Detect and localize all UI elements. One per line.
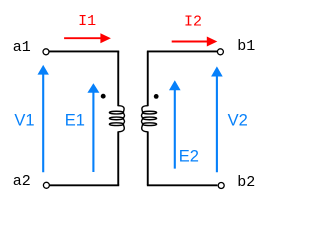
polarity dot primary <box>101 94 106 99</box>
svg-text:a1: a1 <box>13 39 31 56</box>
emf arrow E2 <box>169 80 181 168</box>
svg-text:b1: b1 <box>237 38 255 55</box>
voltage arrow V2 <box>211 66 223 172</box>
wire bottom-right horizontal node to b2 <box>147 184 218 186</box>
wire right vertical lower <box>147 131 149 185</box>
svg-text:a2: a2 <box>13 173 31 190</box>
svg-text:E1: E1 <box>65 111 85 129</box>
terminal b2 <box>218 183 224 189</box>
svg-text:I2: I2 <box>184 13 202 30</box>
wire right vertical upper <box>147 51 149 106</box>
terminal a1 <box>43 49 49 55</box>
emf arrow E1 <box>87 83 99 172</box>
inductor L1 primary winding <box>109 106 124 132</box>
polarity dot secondary <box>154 94 159 99</box>
wire bottom-left horizontal a2 to node <box>50 184 120 186</box>
terminal b1 <box>217 49 223 55</box>
svg-text:b2: b2 <box>237 174 255 191</box>
inductor L2 secondary winding <box>142 106 157 132</box>
svg-text:I1: I1 <box>78 13 96 30</box>
svg-text:V1: V1 <box>14 111 34 129</box>
current arrow I2 <box>172 37 218 47</box>
current arrow I1 <box>64 33 111 43</box>
wire left vertical upper <box>117 51 119 106</box>
svg-text:V2: V2 <box>228 111 248 129</box>
wire top-right horizontal node to b1 <box>147 50 217 52</box>
voltage arrow V1 <box>38 65 49 172</box>
wire top-left horizontal a1 to node <box>49 50 119 52</box>
svg-text:E2: E2 <box>179 147 199 165</box>
wire left vertical lower <box>117 131 119 185</box>
terminal a2 <box>43 182 49 188</box>
